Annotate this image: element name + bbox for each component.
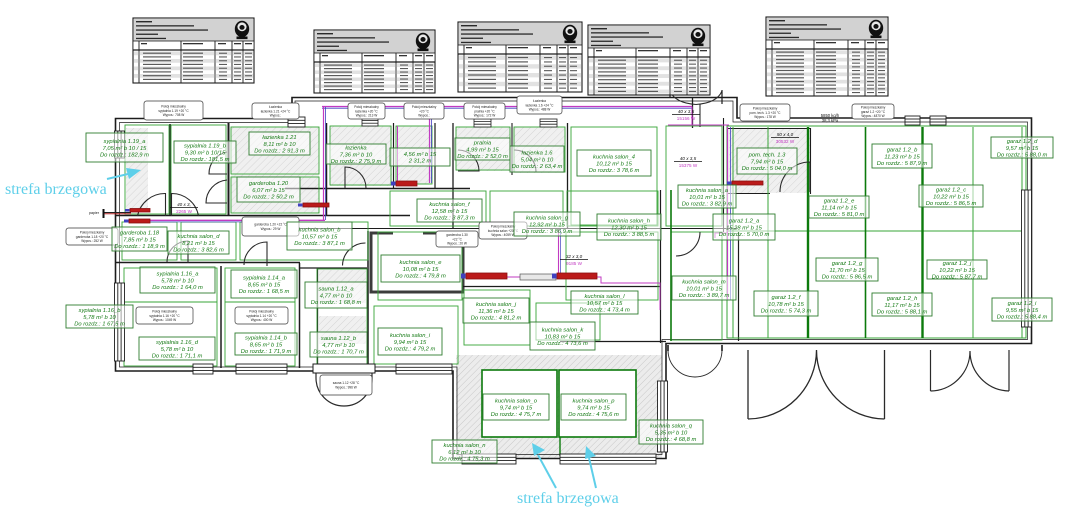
svg-text:garderoba 1.20: garderoba 1.20 — [249, 181, 289, 187]
svg-text:Łazienka: Łazienka — [533, 99, 546, 103]
door kuchnia m — [676, 232, 700, 256]
svg-text:Do rozdz.: 4 75,6 m: Do rozdz.: 4 75,6 m — [568, 412, 619, 418]
svg-text:garderoba 1.30: garderoba 1.30 — [446, 233, 468, 237]
radiator manifold left — [303, 203, 329, 207]
svg-text:garderoba 1.20 +22 °C: garderoba 1.20 +22 °C — [254, 223, 287, 227]
radiator west upper — [130, 209, 150, 213]
wall pom tech right — [810, 128, 812, 194]
svg-text:4,56 m² b 15: 4,56 m² b 15 — [404, 152, 437, 158]
garage divider thin 2 — [767, 127, 769, 338]
room kuchnia salon_j — [464, 290, 530, 345]
white label lazienka 1.21 — [252, 103, 299, 119]
hatched lazienka 1.6 — [514, 127, 565, 173]
svg-text:7,85 m² b 15: 7,85 m² b 15 — [123, 237, 156, 243]
garage door double 2 — [931, 350, 1010, 391]
svg-text:32 x 3,0: 32 x 3,0 — [566, 254, 583, 259]
pipe magenta top corridor — [322, 106, 692, 108]
room kuchnia salon_i — [374, 306, 458, 364]
room label kuchnia salon_n — [432, 440, 497, 463]
svg-text:Do rozdz.: 3 82,6 m: Do rozdz.: 3 82,6 m — [173, 248, 224, 254]
annotation arrow bottom 1 — [532, 443, 556, 488]
svg-text:Do rozdz.: 1 70,7 m: Do rozdz.: 1 70,7 m — [313, 350, 364, 356]
svg-text:sypialnia 1.19 +20 °C: sypialnia 1.19 +20 °C — [158, 109, 189, 113]
vent top 1 — [905, 116, 920, 125]
dim label 32x3.0 — [560, 254, 588, 266]
svg-text:10,57 m² b 15: 10,57 m² b 15 — [587, 301, 624, 307]
svg-text:kuchnia salon_o: kuchnia salon_o — [495, 399, 538, 405]
svg-text:Do rozdz.: 2 63,4 m: Do rozdz.: 2 63,4 m — [512, 164, 563, 170]
svg-text:kuchnia salon_n: kuchnia salon_n — [444, 443, 486, 449]
svg-text:50 x 4,0: 50 x 4,0 — [777, 132, 794, 137]
room label kuchnia salon_e — [381, 255, 460, 282]
svg-text:Pokój mieszkalny: Pokój mieszkalny — [412, 105, 437, 109]
svg-text:30532 W: 30532 W — [776, 139, 795, 144]
room label kuchnia salon_o — [483, 394, 549, 420]
door stairs — [343, 243, 366, 266]
svg-text:Pokój mieszkalny: Pokój mieszkalny — [354, 105, 379, 109]
hatched sauna lower — [319, 316, 366, 344]
room sypialnia 1.14 — [225, 268, 295, 366]
pipe drop garage — [727, 127, 729, 300]
room label garaz 1.2_e — [809, 196, 869, 218]
room label sypialnia 1.16_d — [139, 337, 215, 360]
svg-text:kuchnia salon_j: kuchnia salon_j — [476, 302, 517, 308]
svg-text:Do rozdz.: 181,5 m: Do rozdz.: 181,5 m — [181, 157, 230, 163]
svg-text:7,94 m² b 15: 7,94 m² b 15 — [751, 159, 784, 165]
svg-text:Pokój mieszkalny: Pokój mieszkalny — [491, 224, 516, 228]
svg-text:Do rozdz.: 4 73,6 m: Do rozdz.: 4 73,6 m — [537, 341, 588, 347]
vent wall small 2 — [474, 119, 491, 127]
svg-text:Pokój mieszkalny: Pokój mieszkalny — [249, 309, 274, 313]
svg-text:Wypos.: 400 W: Wypos.: 400 W — [251, 318, 273, 322]
wall horizontal bath row — [285, 188, 470, 190]
room kuchnia salon_d — [181, 222, 236, 260]
green line bedroom split 2 — [225, 301, 295, 303]
svg-text:garaż 1.2_d: garaż 1.2_d — [1007, 139, 1038, 145]
white label small — [404, 103, 444, 119]
svg-text:5,78 m² b 10: 5,78 m² b 10 — [161, 347, 194, 353]
svg-text:Wypos.:: Wypos.: — [418, 114, 430, 118]
svg-text:9,74 m² b 15: 9,74 m² b 15 — [500, 405, 533, 411]
room pralnia — [456, 127, 510, 170]
room label kuchnia salon_i — [378, 328, 442, 355]
svg-text:+22 °C: +22 °C — [452, 237, 463, 241]
room label sauna 1.12_a — [305, 282, 367, 308]
room label lazienka 7,36 — [326, 144, 386, 165]
svg-text:10,01 m² b 15: 10,01 m² b 15 — [686, 286, 723, 292]
room kuchnia salon_o strong — [482, 370, 557, 437]
svg-text:sauna 1.12_a: sauna 1.12_a — [318, 287, 354, 293]
svg-text:łazienka 1.21: łazienka 1.21 — [262, 135, 296, 141]
svg-text:40 x 3,5: 40 x 3,5 — [680, 156, 697, 161]
green divider south block bottom — [559, 437, 561, 456]
svg-text:11,23 m² b 15: 11,23 m² b 15 — [884, 154, 920, 160]
svg-text:Do rozdz.: 2 91,3 m: Do rozdz.: 2 91,3 m — [254, 149, 305, 155]
garage door big double — [748, 350, 885, 419]
svg-text:strefa brzegowa: strefa brzegowa — [5, 181, 107, 198]
svg-text:kuchnia salon_d: kuchnia salon_d — [178, 234, 221, 240]
room kuchnia salon_m — [671, 232, 722, 340]
svg-text:2265 W: 2265 W — [176, 209, 192, 214]
dim label 50x4.0 — [771, 132, 799, 144]
stair room door gap — [393, 231, 423, 237]
table 4 — [588, 25, 710, 95]
room label 4,56 — [390, 148, 450, 166]
svg-text:garderoba 1.18: garderoba 1.18 — [120, 231, 160, 237]
svg-text:Do rozdz.: 1 18,9 m: Do rozdz.: 1 18,9 m — [114, 244, 165, 250]
svg-text:garaż 1.2_e: garaż 1.2_e — [824, 199, 855, 205]
flow label kg/h — [821, 113, 840, 123]
wall under manifold corridor — [463, 286, 661, 288]
white label pom tech — [740, 104, 790, 121]
svg-text:kuchnia salon_l: kuchnia salon_l — [585, 294, 626, 300]
window south block 2 — [560, 454, 656, 464]
room sypialnia 1.16 — [124, 268, 217, 366]
hatched border of south block — [456, 355, 662, 458]
room label kuchnia salon_l — [571, 291, 638, 314]
outer wall building — [116, 98, 1032, 459]
svg-text:11,17 m² b 15: 11,17 m² b 15 — [884, 303, 920, 309]
room label kuchnia salon_b — [287, 222, 352, 250]
svg-text:Wypos.: 252 W: Wypos.: 252 W — [81, 239, 103, 243]
pipe pom tech — [728, 183, 763, 185]
hatched sauna rooms — [319, 270, 366, 303]
svg-text:Do rozdz.: 5 70,0 m: Do rozdz.: 5 70,0 m — [719, 232, 770, 238]
svg-text:łazienka +20 °C: łazienka +20 °C — [355, 109, 378, 113]
white label sauna — [320, 375, 372, 395]
door lazienka 1.6 — [514, 150, 536, 172]
svg-text:pralnia +20 °C: pralnia +20 °C — [474, 109, 495, 113]
svg-text:garderoba 1.18 +20 °C: garderoba 1.18 +20 °C — [76, 235, 109, 239]
white label garaz — [852, 104, 894, 119]
wall vertical lower sauna corridor — [367, 231, 369, 369]
svg-text:Do rozdz.: 5 88,0 m: Do rozdz.: 5 88,0 m — [997, 153, 1048, 159]
pipe west corridor — [128, 219, 325, 221]
svg-text:sauna 1.12 +28 °C: sauna 1.12 +28 °C — [333, 381, 360, 385]
room label kuchnia salon_d — [168, 231, 229, 254]
radiator pom tech — [732, 181, 763, 185]
room label kuchnia salon_j — [463, 298, 529, 323]
garage divider med — [865, 127, 867, 338]
svg-text:8,65 m² b 15: 8,65 m² b 15 — [248, 282, 281, 288]
svg-text:garaż 1.2_g: garaż 1.2_g — [832, 261, 863, 267]
wall pom tech left — [727, 128, 729, 194]
room sypialnia 1.19_a — [125, 125, 169, 214]
room kuchnia salon_h — [567, 191, 658, 226]
svg-text:38,3 kPa: 38,3 kPa — [822, 118, 839, 123]
room label sauna 1.12_b — [310, 332, 367, 357]
dim label small left — [170, 202, 198, 214]
wall horizontal mid — [116, 262, 300, 264]
room label kuchnia salon_m — [672, 276, 736, 300]
door garderoba 1.20 — [206, 180, 227, 203]
svg-text:pom. tech. 1.3: pom. tech. 1.3 — [748, 153, 787, 159]
svg-text:kuchnia salon_a: kuchnia salon_a — [686, 188, 729, 194]
svg-text:4,99 m² b 15: 4,99 m² b 15 — [466, 147, 499, 153]
svg-text:Wypos.: 1049 W: Wypos.: 1049 W — [153, 318, 176, 322]
room kuchnia salon_e — [378, 232, 462, 300]
room label garaz 1.2_j — [927, 260, 987, 281]
svg-text:garaż 1.2_j: garaż 1.2_j — [943, 261, 972, 267]
svg-text:Do rozdz.: 4 79,2 m: Do rozdz.: 4 79,2 m — [385, 347, 436, 353]
table 2 — [314, 30, 435, 93]
annotation arrow bottom 2 — [585, 446, 596, 488]
white label sypialnia 1.19 — [144, 101, 203, 120]
svg-text:sypialnia 1.19_a: sypialnia 1.19_a — [104, 139, 147, 145]
wall vertical mid-block — [660, 190, 662, 343]
room kuchnia salon_4 — [571, 127, 657, 225]
svg-text:kuchnia salon_p: kuchnia salon_p — [573, 399, 616, 405]
svg-text:+20 °C: +20 °C — [419, 109, 430, 113]
svg-text:papier: papier — [89, 211, 100, 215]
door pralnia — [458, 150, 479, 171]
svg-text:Do rozdz.: 1 71,9 m: Do rozdz.: 1 71,9 m — [241, 349, 292, 355]
svg-text:Do rozdz.: 1 67,5 m: Do rozdz.: 1 67,5 m — [74, 322, 125, 328]
svg-text:7,36 m² b 10: 7,36 m² b 10 — [340, 152, 373, 158]
stair room double wall — [371, 233, 463, 292]
pipe garage loop — [715, 233, 728, 238]
svg-text:łazienka 1.6: łazienka 1.6 — [522, 151, 554, 157]
vent top 2 — [930, 116, 946, 125]
svg-text:Do rozdz.: 5 04,0 m: Do rozdz.: 5 04,0 m — [742, 166, 793, 172]
room kuchnia salon_b — [240, 222, 368, 260]
wall vertical lower 2 — [299, 263, 301, 368]
svg-text:sypialnia 1.16_a: sypialnia 1.16_a — [157, 272, 200, 278]
svg-text:Wypos.: 708 W: Wypos.: 708 W — [163, 113, 185, 117]
svg-text:Do rozdz.: 3 82,9 m: Do rozdz.: 3 82,9 m — [682, 202, 733, 208]
wall vertical 694 — [692, 97, 694, 128]
svg-text:6,12 m² b 10: 6,12 m² b 10 — [448, 450, 481, 456]
room sauna 1.12 — [317, 269, 367, 366]
pipe center drop — [558, 229, 560, 273]
wall horizontal sauna top — [300, 267, 367, 269]
svg-text:8,65 m² b 15: 8,65 m² b 15 — [250, 342, 283, 348]
svg-text:Wypos.: 29 W: Wypos.: 29 W — [261, 227, 281, 231]
svg-text:kuchnia salon_f: kuchnia salon_f — [429, 202, 471, 208]
svg-text:garaż 1.2_f: garaż 1.2_f — [771, 295, 801, 301]
window east wall — [1022, 190, 1032, 327]
svg-text:łazienka 1.6 +24 °C: łazienka 1.6 +24 °C — [526, 103, 554, 107]
svg-text:Pokój mieszkalny: Pokój mieszkalny — [80, 230, 105, 234]
door bedroom 1.19_a — [138, 193, 166, 216]
room label kuchnia salon_a — [678, 185, 736, 208]
room label kuchnia salon_k — [530, 322, 595, 350]
svg-text:12,92 m² b 15: 12,92 m² b 15 — [529, 222, 566, 228]
svg-text:2 31,2 m: 2 31,2 m — [408, 159, 432, 165]
svg-text:Do rozdz.: 2 50,2 m: Do rozdz.: 2 50,2 m — [243, 195, 294, 201]
svg-text:Wypos.: 172 W: Wypos.: 172 W — [474, 114, 496, 118]
svg-text:kuchnia salon_h: kuchnia salon_h — [608, 219, 650, 225]
wall vertical 6 — [452, 123, 454, 228]
svg-text:Do rozdz.: 3 86,9 m: Do rozdz.: 3 86,9 m — [522, 229, 573, 235]
room label garaz 1.2_g — [816, 258, 878, 281]
pipe west stub — [104, 212, 131, 214]
entrance door south double — [316, 372, 372, 406]
svg-text:kuchnia salon_e: kuchnia salon_e — [400, 260, 443, 266]
door kuchnia d2 — [244, 242, 267, 266]
svg-text:Wypos.: 4059 W: Wypos.: 4059 W — [491, 233, 514, 237]
svg-text:łazienka 1.21 +24 °C: łazienka 1.21 +24 °C — [261, 109, 291, 113]
svg-text:8,11 m² b 10: 8,11 m² b 10 — [263, 142, 296, 148]
svg-text:9,55 m² b 15: 9,55 m² b 15 — [1006, 308, 1039, 314]
wall vertical 5 — [434, 123, 436, 188]
svg-text:Łazienka: Łazienka — [269, 105, 282, 109]
room label sypialnia 1.16_b — [66, 305, 133, 328]
table 1 — [133, 18, 254, 83]
svg-text:11,70 m² b 15: 11,70 m² b 15 — [829, 268, 865, 274]
wall horizontal south of kitchen row — [280, 228, 737, 230]
svg-text:sauna 1.12_b: sauna 1.12_b — [321, 336, 357, 342]
room sypialnia 1.19_b — [171, 125, 226, 214]
svg-text:Do rozdz.: 1 68,5 m: Do rozdz.: 1 68,5 m — [239, 289, 290, 295]
pipe west end cap — [103, 209, 105, 218]
svg-text:garaż 1.2_c: garaż 1.2_c — [936, 188, 966, 194]
room label garderoba 1.18 — [112, 227, 167, 251]
room label garaz 1.2_f — [754, 291, 818, 316]
pipe drop room 4,56 — [429, 107, 431, 183]
svg-text:Pokój mieszkalny: Pokój mieszkalny — [161, 104, 186, 108]
svg-text:10,22 m² b 15: 10,22 m² b 15 — [939, 268, 976, 274]
svg-text:9,30 m² b 10/15: 9,30 m² b 10/15 — [185, 150, 226, 156]
room garderoba 1.20 — [231, 177, 319, 213]
white label lazienka 1.6 — [517, 96, 562, 114]
svg-text:40 x 3,5: 40 x 3,5 — [678, 109, 695, 114]
room label sypialnia 1.14_a — [231, 270, 297, 298]
svg-text:Do rozdz.: 5 86,5 m: Do rozdz.: 5 86,5 m — [822, 275, 873, 281]
outer wall inner line — [120, 101, 1028, 455]
top door arcs — [670, 91, 722, 105]
wall vertical 1 — [169, 124, 171, 215]
svg-text:garaż 1.2 +20 °C: garaż 1.2 +20 °C — [861, 110, 886, 114]
svg-text:10,08 m² b 15: 10,08 m² b 15 — [403, 267, 440, 273]
svg-text:Do rozdz.: 4 79,8 m: Do rozdz.: 4 79,8 m — [395, 274, 446, 280]
french door east of south block — [668, 350, 722, 377]
svg-text:pom. tech. 1.3 +20 °C: pom. tech. 1.3 +20 °C — [750, 111, 782, 115]
striped window bar center — [520, 274, 556, 280]
room label kuchnia salon_g — [514, 212, 580, 236]
svg-text:5,78 m² b 10: 5,78 m² b 10 — [161, 278, 194, 284]
svg-text:garaż 1.2_h: garaż 1.2_h — [887, 296, 918, 302]
green line bedroom split 1 — [124, 301, 217, 303]
room lazienka 7,36 — [330, 126, 391, 185]
svg-text:Do rozdz.: 1 68,8 m: Do rozdz.: 1 68,8 m — [311, 300, 362, 306]
svg-text:4,77 m² b 10: 4,77 m² b 10 — [320, 293, 353, 299]
svg-text:kuchnia salon_m: kuchnia salon_m — [682, 280, 726, 286]
svg-text:Pokój mieszkalny: Pokój mieszkalny — [472, 105, 497, 109]
svg-text:Do rozdz.: 5 88,1 m: Do rozdz.: 5 88,1 m — [877, 310, 928, 316]
wall vertical lower 1 — [220, 266, 222, 368]
garage divider thin 4 — [1021, 127, 1023, 338]
white label sypialnia 1.16 — [136, 307, 193, 324]
white label garderoba 1.30 — [436, 231, 478, 247]
door lazienka 1.21 — [209, 152, 227, 174]
white label garderoba 1.20 — [242, 217, 299, 236]
room kuchnia salon_p strong — [559, 370, 636, 437]
svg-text:10,01 m² b 15: 10,01 m² b 15 — [689, 195, 726, 201]
svg-text:40 x 3,: 40 x 3, — [177, 202, 191, 207]
svg-text:15375 W: 15375 W — [679, 163, 698, 168]
room label pralnia — [455, 138, 510, 160]
room label sypialnia 1.14_b — [235, 333, 297, 355]
wall corridor horizontal left — [116, 215, 410, 217]
svg-text:5,35 m² b 10: 5,35 m² b 10 — [655, 430, 688, 436]
room kuchnia salon_l — [566, 232, 658, 300]
svg-text:sypialnia 1.16 +20 °C: sypialnia 1.16 +20 °C — [149, 314, 180, 318]
white label lazienka — [348, 103, 385, 119]
svg-text:4,77 m² b 10: 4,77 m² b 10 — [322, 343, 355, 349]
window west wall 2 — [115, 283, 125, 361]
room label garaz 1.2_a — [713, 214, 775, 240]
radiator west corridor — [129, 219, 150, 223]
svg-text:garaż 1.2_i: garaż 1.2_i — [1008, 301, 1037, 307]
svg-text:Do rozdz.: 3 87,3 m: Do rozdz.: 3 87,3 m — [424, 216, 475, 222]
room kuchnia salon_k — [536, 303, 600, 340]
hatched room 4,56 — [396, 126, 432, 184]
room label kuchnia salon_4 — [577, 150, 651, 176]
hatched bathroom lazienka 7,36 — [330, 126, 392, 186]
svg-text:pralnia: pralnia — [473, 141, 492, 147]
svg-text:strefa brzegowa: strefa brzegowa — [517, 490, 619, 507]
room label garaz 1.2_d — [991, 137, 1053, 159]
window south block 1 — [462, 454, 516, 464]
svg-text:garaż 1.2_a: garaż 1.2_a — [729, 219, 760, 225]
svg-text:kuchnia salon_q: kuchnia salon_q — [650, 424, 693, 430]
wall vertical 8 — [567, 123, 569, 228]
svg-text:10,83 m² b 15: 10,83 m² b 15 — [545, 334, 582, 340]
radiator room 4,56 — [396, 181, 417, 186]
window south wall 1 — [193, 364, 213, 374]
vent top wall left — [288, 117, 305, 127]
svg-text:9,57 m² b 15: 9,57 m² b 15 — [1006, 146, 1039, 152]
door bedroom 1.19_b — [172, 193, 199, 216]
room garage area a — [666, 126, 722, 226]
green wall kuchnia salon_m west — [670, 190, 672, 341]
svg-text:12,30 m² b 15: 12,30 m² b 15 — [611, 225, 648, 231]
window south wall 2 — [236, 364, 287, 374]
room label sypialnia 1.19_b — [174, 141, 236, 163]
pipe door link — [668, 124, 729, 126]
svg-text:Wypos.: 178 W: Wypos.: 178 W — [754, 115, 776, 119]
door lazienka 7,36 — [345, 167, 366, 188]
table 5 — [766, 17, 888, 96]
garage outline green — [727, 126, 1026, 338]
svg-text:Do rozdz.: 3 88,5 m: Do rozdz.: 3 88,5 m — [604, 232, 655, 238]
pipe blue top corridor — [322, 107, 692, 109]
svg-text:Do rozdz.: 2 75,9 m: Do rozdz.: 2 75,9 m — [331, 159, 382, 165]
room label lazienka 1.21 — [249, 132, 310, 155]
window south block east wall — [658, 381, 668, 452]
dim label 40x3.5 top — [672, 109, 700, 121]
garage divider thick 2 — [921, 127, 923, 338]
room kuchnia salon_f — [390, 191, 486, 226]
svg-text:Pokój mieszkalny: Pokój mieszkalny — [753, 106, 778, 110]
svg-text:Wypos.: 20 W: Wypos.: 20 W — [447, 242, 467, 246]
annotation arrow left — [107, 168, 141, 179]
svg-text:Do rozdz.: 1 64,0 m: Do rozdz.: 1 64,0 m — [152, 285, 203, 291]
garage divider thick 1 — [807, 127, 809, 338]
svg-text:9185 W: 9185 W — [566, 261, 582, 266]
svg-text:Do rozdz.: 3 89,7 m: Do rozdz.: 3 89,7 m — [679, 293, 730, 299]
table 3 — [458, 22, 582, 92]
hatched pom. tech. 1.3 — [729, 129, 811, 193]
wall vertical 4 — [393, 123, 395, 188]
svg-text:Do rozdz.: 5 86,5 m: Do rozdz.: 5 86,5 m — [926, 201, 977, 207]
window south wall 3 — [396, 364, 452, 374]
room label sypialnia 1.19_a — [86, 133, 163, 162]
svg-text:sypialnia 1.16_b: sypialnia 1.16_b — [79, 308, 122, 314]
garage divider thin 1 — [732, 127, 734, 338]
hatched bathroom lazienka 1.21 / garderoba 1.20 — [231, 127, 319, 213]
